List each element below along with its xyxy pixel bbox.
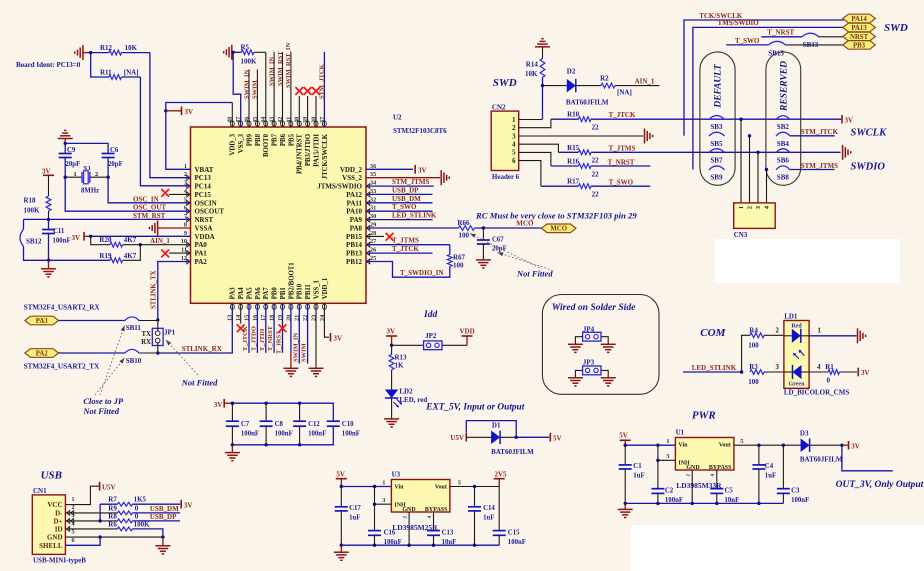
wire INH pin 3 xyxy=(373,487,392,506)
capacitor C11 100nF xyxy=(42,219,71,260)
svg-text:3V: 3V xyxy=(387,328,396,336)
svg-text:C2: C2 xyxy=(665,488,674,495)
svg-text:PB6: PB6 xyxy=(280,133,287,146)
svg-text:T_SWDIO_IN: T_SWDIO_IN xyxy=(400,269,444,277)
svg-text:U2: U2 xyxy=(393,114,402,122)
power 2V5 xyxy=(494,471,507,487)
svg-text:SWIM_IN: SWIM_IN xyxy=(243,69,250,99)
svg-text:100nF: 100nF xyxy=(508,539,526,546)
wire crystal to OSCOUT xyxy=(65,177,190,211)
svg-text:MCO: MCO xyxy=(516,219,534,227)
ground below C17 xyxy=(334,545,349,560)
net T_JTDO pin 16 xyxy=(250,303,257,353)
junction crystal right xyxy=(106,176,109,179)
svg-text:1uF: 1uF xyxy=(765,473,776,480)
svg-text:R13: R13 xyxy=(395,354,408,362)
svg-text:JP2: JP2 xyxy=(425,332,437,340)
tag PA3 xyxy=(25,316,59,325)
junction D1 cathode xyxy=(515,436,518,439)
diode D3 BAT60JFILM xyxy=(800,429,843,463)
svg-text:T_JTDI: T_JTDI xyxy=(259,328,266,351)
svg-text:PB0: PB0 xyxy=(272,287,279,300)
resistor R13 1K xyxy=(389,345,407,370)
junction LED_STLINK xyxy=(740,370,743,373)
diode D2 BAT60JFILM xyxy=(543,68,609,107)
net SWIM_RST_IN pin 41 xyxy=(285,43,292,127)
svg-text:SWIM: SWIM xyxy=(252,80,259,99)
connector CN1 USB-MINI-typeB xyxy=(32,487,86,564)
stadium RESERVED xyxy=(766,52,801,185)
svg-text:VBAT: VBAT xyxy=(195,166,214,174)
svg-text:C13: C13 xyxy=(442,530,454,537)
svg-text:PB5: PB5 xyxy=(288,133,295,146)
svg-text:SWD: SWD xyxy=(884,22,908,34)
wire U1 INH pin 3 xyxy=(656,445,675,462)
svg-text:PC13: PC13 xyxy=(195,174,212,182)
svg-text:D1: D1 xyxy=(492,422,501,430)
svg-text:Header 6: Header 6 xyxy=(492,173,520,181)
net T_JTDI pin 17 xyxy=(259,303,266,353)
resistor R2 [NA] xyxy=(600,75,659,97)
connector CN2 Header 6 xyxy=(491,103,519,181)
resistor R66 100 on MCO pin 29 xyxy=(366,219,542,239)
svg-text:PA13: PA13 xyxy=(851,25,867,32)
svg-text:R7: R7 xyxy=(108,496,117,504)
wire PA2 pin 12 STLINK_TX xyxy=(158,262,191,320)
svg-text:22: 22 xyxy=(592,191,600,199)
svg-text:Close to JP: Close to JP xyxy=(83,396,123,406)
svg-text:T_NRST: T_NRST xyxy=(608,159,635,167)
svg-text:VSSA: VSSA xyxy=(195,224,213,232)
wire crystal to OSCIN xyxy=(108,177,190,203)
ground below LD2 xyxy=(384,418,399,420)
U3 bottom rail xyxy=(340,544,500,547)
wire STM_RST rail to NRST pin 7 xyxy=(24,218,191,220)
resistor R15 22 T_JTMS row xyxy=(558,144,840,165)
svg-text:LD_BICOLOR_CMS: LD_BICOLOR_CMS xyxy=(784,389,849,397)
svg-text:PB14: PB14 xyxy=(346,241,362,249)
resistor R8 0 USB_DP xyxy=(65,512,180,522)
svg-text:R15: R15 xyxy=(567,144,580,152)
svg-text:VSS_2: VSS_2 xyxy=(342,174,362,182)
svg-text:Red: Red xyxy=(791,324,802,330)
svg-text:1: 1 xyxy=(818,327,822,334)
tag PB3 xyxy=(843,41,876,50)
svg-text:SWIM_IN: SWIM_IN xyxy=(292,332,299,362)
capacitor C7 100nF xyxy=(226,402,259,447)
jumper JP1 xyxy=(141,320,176,353)
svg-text:1: 1 xyxy=(74,171,77,178)
svg-text:VDD_1: VDD_1 xyxy=(322,277,329,299)
svg-text:PA9: PA9 xyxy=(350,216,363,224)
svg-text:Not Fitted: Not Fitted xyxy=(82,406,119,416)
svg-text:SB6: SB6 xyxy=(777,156,790,164)
net T_JTMS pin 27 / resistor R67 100 xyxy=(366,237,466,278)
svg-text:Wired on Solder Side: Wired on Solder Side xyxy=(552,302,636,313)
no-connect X pin 28 PB15 xyxy=(366,233,393,241)
svg-text:100: 100 xyxy=(748,378,759,386)
svg-text:MCO: MCO xyxy=(550,226,567,233)
svg-text:R20: R20 xyxy=(99,236,112,244)
svg-text:C14: C14 xyxy=(483,505,495,512)
resistor R3 100 xyxy=(748,363,784,386)
svg-text:100nF: 100nF xyxy=(241,430,259,437)
svg-text:PB1: PB1 xyxy=(280,287,287,300)
no-connect X pin 11 PA1 xyxy=(161,250,190,258)
svg-text:PA12: PA12 xyxy=(346,191,362,199)
wire R7 to D+ line xyxy=(99,504,101,521)
svg-text:PA10: PA10 xyxy=(346,208,362,216)
solder bridge SB2 xyxy=(776,116,790,132)
svg-text:SB9: SB9 xyxy=(710,174,723,182)
connector CN3 xyxy=(734,203,776,239)
svg-text:Board Ident: PC13=0: Board Ident: PC13=0 xyxy=(16,61,81,69)
svg-text:4: 4 xyxy=(817,364,821,371)
svg-text:SB4: SB4 xyxy=(777,140,790,148)
CN2 pin stubs xyxy=(519,119,644,186)
svg-text:R17: R17 xyxy=(567,178,580,186)
svg-text:4: 4 xyxy=(512,142,516,149)
svg-text:STM_JTMS: STM_JTMS xyxy=(801,162,838,170)
svg-text:20pF: 20pF xyxy=(66,161,81,168)
svg-text:SB12: SB12 xyxy=(26,238,42,246)
svg-text:PWR: PWR xyxy=(692,410,716,422)
svg-text:SWIM_RST: SWIM_RST xyxy=(277,51,284,86)
svg-text:T_NRST: T_NRST xyxy=(267,325,274,351)
svg-text:VDD_2: VDD_2 xyxy=(340,166,363,174)
power 5V at U3 xyxy=(336,471,347,487)
wire U1 Vout xyxy=(734,438,801,447)
svg-text:EXT_5V, Input or Output: EXT_5V, Input or Output xyxy=(425,402,524,412)
svg-text:4K7: 4K7 xyxy=(124,252,137,260)
regulator U3 LD3985M25R xyxy=(391,480,450,513)
svg-text:VSS_1: VSS_1 xyxy=(313,279,320,299)
svg-text:PC15: PC15 xyxy=(195,191,212,199)
capacitor C13 10nF on BYPASS xyxy=(427,512,456,546)
svg-text:R5: R5 xyxy=(241,43,250,51)
capacitor C8 100nF xyxy=(260,402,293,447)
capacitor C6 20pF xyxy=(65,143,123,177)
svg-text:3V: 3V xyxy=(861,369,870,377)
svg-text:PB4/JNTRST: PB4/JNTRST xyxy=(297,134,304,175)
svg-text:C1: C1 xyxy=(633,463,642,470)
svg-text:PB13: PB13 xyxy=(346,250,362,258)
svg-text:C11: C11 xyxy=(53,228,65,235)
power 3V at R1 xyxy=(858,368,869,377)
svg-text:Idd: Idd xyxy=(423,310,437,320)
solder bridge SB11 on PA3 wire xyxy=(59,317,158,332)
ground (rotated) at R5 xyxy=(224,45,232,60)
svg-text:Vout: Vout xyxy=(719,443,731,449)
net T_JRST pin 19 with X xyxy=(276,303,287,354)
wire U3 Vout to 2V5 xyxy=(450,479,499,488)
svg-text:T_JTCK: T_JTCK xyxy=(609,111,636,119)
svg-text:RC Must be very close to STM32: RC Must be very close to STM32F103 pin 2… xyxy=(475,210,637,220)
wire VSS_1 pin 23 to ground xyxy=(309,303,324,376)
no-connect X pin 40 xyxy=(295,87,303,127)
svg-text:SB8: SB8 xyxy=(777,174,790,182)
net SWIM pin 45 xyxy=(252,69,259,127)
svg-text:PB15: PB15 xyxy=(346,233,362,241)
svg-text:NRST: NRST xyxy=(850,34,869,41)
svg-text:PA2: PA2 xyxy=(36,350,49,357)
svg-text:C3: C3 xyxy=(791,488,800,495)
capacitor C1 1uF xyxy=(619,445,645,503)
net T_JTCK pin 26 xyxy=(366,245,433,253)
power U5V at D1 xyxy=(450,433,466,442)
net USB_DP pin 33 xyxy=(366,186,433,194)
MCU U2 STM32F103C8T6 body xyxy=(191,127,367,303)
no-connect X pin 4 PC15 xyxy=(161,189,190,197)
svg-text:STM_JTCK: STM_JTCK xyxy=(801,128,839,136)
svg-text:100: 100 xyxy=(453,262,464,270)
svg-text:SWIM: SWIM xyxy=(301,343,308,362)
svg-text:STM_RST: STM_RST xyxy=(133,212,166,220)
resistor R5 100K xyxy=(233,43,266,65)
svg-text:PA15/JTDI: PA15/JTDI xyxy=(313,134,320,167)
white patch lower right xyxy=(631,525,924,571)
svg-text:20pF: 20pF xyxy=(492,245,507,252)
U2 bottom pin names (rotated) and numbers xyxy=(227,262,329,321)
net TCK/SWCLK to PA14 xyxy=(684,12,844,136)
wire VDD_1 pin 24 to 3V xyxy=(324,303,342,342)
svg-text:JP1: JP1 xyxy=(164,329,176,337)
svg-text:BAT60JFILM: BAT60JFILM xyxy=(491,448,534,456)
wire BOOT0 pin 44 xyxy=(265,52,267,127)
svg-text:U5V: U5V xyxy=(450,434,464,442)
svg-text:STM32F103C8T6: STM32F103C8T6 xyxy=(393,127,447,135)
resistor R4 100 xyxy=(742,326,784,372)
svg-text:PB2/BOOT1: PB2/BOOT1 xyxy=(288,262,295,300)
capacitor C3 100nF xyxy=(777,445,809,504)
solder bridge SB4 xyxy=(776,132,790,148)
net SWIM_IN pin 46 xyxy=(243,69,250,127)
svg-text:T_SWO: T_SWO xyxy=(609,179,634,187)
ground below C11 xyxy=(41,260,56,277)
annotation Not Fitted JP1 xyxy=(166,340,218,388)
diode D1 BAT60JFILM xyxy=(466,422,534,456)
solder bridge SB6 xyxy=(776,149,790,165)
ground (rotated) CN2 pin 3 xyxy=(644,129,646,144)
svg-text:BOOT0: BOOT0 xyxy=(263,133,270,157)
tag PA13 xyxy=(843,23,876,32)
svg-text:Not Fitted: Not Fitted xyxy=(181,378,218,388)
svg-text:100nF: 100nF xyxy=(308,430,326,437)
svg-text:[NA]: [NA] xyxy=(617,89,632,97)
svg-text:VSS_3: VSS_3 xyxy=(238,133,245,153)
annotation Close to JP Not Fitted xyxy=(82,326,124,417)
svg-text:PB7: PB7 xyxy=(272,133,279,146)
svg-text:COM: COM xyxy=(700,327,726,339)
svg-text:1: 1 xyxy=(666,438,669,445)
resistor R1 0 xyxy=(809,363,857,384)
svg-text:PA7: PA7 xyxy=(263,287,270,300)
power 3V at D3 xyxy=(842,441,860,451)
solder bridge SB5 xyxy=(709,132,725,148)
svg-text:C16: C16 xyxy=(384,530,396,537)
svg-text:OUT_3V, Only Output: OUT_3V, Only Output xyxy=(836,480,924,490)
svg-text:Vin: Vin xyxy=(678,443,688,449)
svg-text:LED_STLINK: LED_STLINK xyxy=(392,212,437,220)
svg-text:LD2: LD2 xyxy=(399,388,413,396)
svg-text:100nF: 100nF xyxy=(53,238,71,245)
capacitor C10 100nF xyxy=(327,421,360,437)
junction D3 cathode xyxy=(840,444,843,447)
svg-text:3: 3 xyxy=(755,206,762,209)
net USB_DM pin 32 xyxy=(366,195,433,203)
wire D1 bypass loop xyxy=(466,421,516,438)
svg-text:C67: C67 xyxy=(492,236,504,243)
U2 top pin names (rotated) and numbers xyxy=(227,117,329,180)
ground above R14 xyxy=(535,39,550,59)
ground JP4 right xyxy=(601,343,616,345)
net SWIM_IN pin 43 xyxy=(268,52,275,127)
svg-text:U5V: U5V xyxy=(102,483,116,491)
svg-text:SWIM_IN: SWIM_IN xyxy=(268,56,275,86)
svg-text:10K: 10K xyxy=(125,44,138,52)
svg-text:Not Fitted: Not Fitted xyxy=(516,269,553,279)
svg-text:3V: 3V xyxy=(845,116,854,124)
svg-text:C15: C15 xyxy=(508,530,520,537)
svg-text:10K: 10K xyxy=(525,70,538,78)
svg-text:VDDA: VDDA xyxy=(195,233,215,241)
ground below C67 xyxy=(476,259,491,261)
wire 3V cap rail xyxy=(232,403,333,421)
no-connect X pin 38 xyxy=(312,87,320,127)
svg-text:PA4: PA4 xyxy=(238,287,245,300)
ground JP4 left xyxy=(568,343,583,345)
svg-text:PA2: PA2 xyxy=(195,258,208,266)
svg-text:SB2: SB2 xyxy=(777,123,790,131)
svg-text:STM32F4_USART2_TX: STM32F4_USART2_TX xyxy=(24,363,100,371)
solder bridge SB12 xyxy=(20,219,49,260)
svg-text:T_JTCK: T_JTCK xyxy=(392,245,419,253)
capacitor C2 100nF xyxy=(651,460,683,504)
svg-text:C4: C4 xyxy=(765,463,774,470)
svg-text:0: 0 xyxy=(135,512,139,520)
capacitor C15 100nF xyxy=(493,487,526,546)
net SWIM_IN pin 21 xyxy=(292,303,299,363)
power 3V at C7 rail xyxy=(214,399,233,409)
junction JP2 left xyxy=(390,344,393,347)
svg-text:R67: R67 xyxy=(453,254,466,262)
svg-text:R12: R12 xyxy=(100,44,113,52)
no-connect X pin 39 xyxy=(304,87,312,127)
wire 5V rail to U1 Vin xyxy=(624,438,676,447)
resistor R20 4K7 xyxy=(91,236,191,247)
svg-text:SWCLK: SWCLK xyxy=(851,128,888,139)
svg-text:22: 22 xyxy=(592,124,600,132)
svg-text:5: 5 xyxy=(72,529,75,536)
svg-text:TX: TX xyxy=(141,331,151,338)
svg-text:BAT60JFILM: BAT60JFILM xyxy=(800,455,843,463)
net SWIM pin 22 xyxy=(301,303,308,363)
svg-text:0: 0 xyxy=(135,504,139,512)
svg-text:C5: C5 xyxy=(725,488,734,495)
power 5V at D1 xyxy=(516,433,561,442)
jumper JP4 xyxy=(575,326,608,345)
no-connect X pin 14 PA4 xyxy=(237,303,245,332)
power 5V at U1 xyxy=(619,432,630,446)
svg-text:6: 6 xyxy=(512,158,516,165)
svg-text:LED_STLINK: LED_STLINK xyxy=(692,364,737,372)
svg-text:USB: USB xyxy=(41,470,62,482)
svg-text:PA6: PA6 xyxy=(255,287,262,300)
power 3V at VDDA xyxy=(72,232,91,242)
svg-text:C10: C10 xyxy=(342,421,354,428)
svg-text:T_JTMS: T_JTMS xyxy=(392,237,419,245)
svg-text:BYPASS: BYPASS xyxy=(425,507,448,513)
wire SHELL pin 6 xyxy=(65,537,100,545)
svg-text:C7: C7 xyxy=(241,421,250,428)
svg-text:CN2: CN2 xyxy=(492,103,506,111)
U1 bottom rail xyxy=(624,502,784,505)
svg-text:3V: 3V xyxy=(214,401,223,409)
svg-text:5: 5 xyxy=(512,150,516,157)
svg-text:1: 1 xyxy=(382,479,385,486)
net STM_JTMS pin 34 xyxy=(366,178,434,186)
svg-text:D3: D3 xyxy=(800,429,809,437)
svg-text:20pF: 20pF xyxy=(108,161,123,168)
solder bridge SB10 on PA2 wire xyxy=(59,349,158,364)
net TMS/SWDIO to PA13 xyxy=(693,19,844,169)
svg-text:PA1: PA1 xyxy=(195,250,208,258)
svg-text:ID: ID xyxy=(55,526,63,534)
svg-text:5V: 5V xyxy=(336,471,345,479)
net T_SWO pin 31 xyxy=(366,203,433,211)
svg-text:2: 2 xyxy=(776,327,780,334)
capacitor C5 10nF on U1 BYPASS xyxy=(710,470,739,504)
solder bridge SB8 xyxy=(776,166,790,182)
svg-text:1K5: 1K5 xyxy=(134,496,147,504)
svg-text:R10: R10 xyxy=(567,111,580,119)
ground above C9/C6 xyxy=(58,130,73,143)
U2 right pin names and numbers xyxy=(317,163,376,266)
svg-text:28: 28 xyxy=(370,230,376,237)
svg-text:5V: 5V xyxy=(553,434,562,442)
svg-text:D+: D+ xyxy=(53,518,62,526)
junction crystal top rail xyxy=(63,142,66,145)
junction C11 bottom xyxy=(47,259,50,262)
junction MCO/C67 xyxy=(482,226,485,229)
svg-text:AIN_1: AIN_1 xyxy=(150,237,170,245)
jumper JP3 xyxy=(575,359,608,378)
net SWIM_RST pin 42 xyxy=(277,51,284,127)
svg-text:PA11: PA11 xyxy=(347,199,363,207)
ground (rotated) at VSS_2 pin 35 xyxy=(366,170,449,185)
svg-text:100nF: 100nF xyxy=(791,497,809,504)
regulator U1 LD3985M33R xyxy=(675,438,734,471)
wires to CN3 xyxy=(739,118,768,203)
svg-text:U1: U1 xyxy=(676,429,685,437)
wire VSS_3 pin 47 to ground net xyxy=(233,52,241,127)
capacitor C12 100nF xyxy=(293,402,326,447)
wire GND pin 5 xyxy=(65,535,164,538)
svg-text:PA14: PA14 xyxy=(851,16,867,23)
svg-text:PA5: PA5 xyxy=(246,287,253,300)
svg-text:Vin: Vin xyxy=(394,485,404,491)
svg-text:100K: 100K xyxy=(241,57,258,65)
net T_SWO to PB3 with SB15 xyxy=(726,37,844,58)
svg-text:PB10: PB10 xyxy=(297,283,304,299)
svg-text:R4: R4 xyxy=(749,326,758,334)
resistor R18 100K xyxy=(24,196,51,214)
capacitor C9 20pF xyxy=(59,143,81,177)
power 3V end of T_JTCK row xyxy=(842,115,853,125)
jumper JP2 xyxy=(392,332,467,350)
svg-text:8MHz: 8MHz xyxy=(81,188,99,195)
resistor R12 10K xyxy=(91,44,150,55)
